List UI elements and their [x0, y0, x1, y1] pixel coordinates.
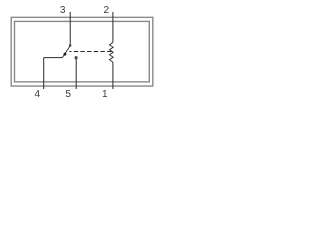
mechanical linkage dashed line [69, 51, 111, 53]
pin 3 lead wire [69, 12, 71, 45]
relay inner case [15, 21, 150, 81]
relay outer case [11, 17, 153, 86]
svg-text:1: 1 [102, 89, 108, 100]
svg-text:5: 5 [65, 89, 71, 100]
pin 2 lead wire [112, 12, 114, 43]
pin 4 lead wire [43, 58, 45, 89]
junction dot on lever (pin 4 connection) [64, 53, 67, 56]
pin 1 lead wire [112, 62, 114, 89]
pin 5 lead wire [75, 59, 77, 89]
wire from pin 4 to lever [44, 57, 63, 59]
pin 5 contact circle [75, 57, 77, 59]
switch pivot contact circle (pin 3) [69, 45, 71, 47]
svg-text:2: 2 [104, 5, 110, 16]
svg-text:3: 3 [60, 5, 66, 16]
relay coil resistor zigzag [110, 42, 114, 62]
svg-text:4: 4 [35, 89, 41, 100]
switch lever arm [62, 46, 70, 57]
